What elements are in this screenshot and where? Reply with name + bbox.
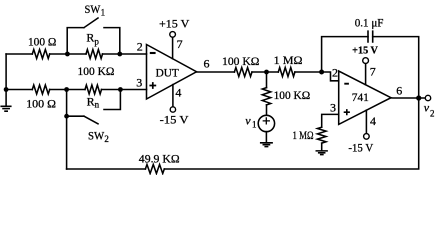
svg-text:100 KΩ: 100 KΩ (222, 54, 259, 68)
op-amp U1 DUT (147, 45, 197, 100)
wire 741 pin7 (365, 64, 367, 85)
ground v1 (261, 132, 272, 147)
resistor 1M mid (278, 68, 295, 77)
wire DUT output (197, 71, 322, 73)
source v1 (258, 115, 274, 131)
resistor 100ohm bottom (32, 85, 49, 94)
svg-text:1 MΩ: 1 MΩ (274, 53, 303, 67)
svg-text:2: 2 (430, 108, 435, 118)
svg-text:n: n (95, 100, 100, 110)
svg-text:-15 V: -15 V (348, 140, 373, 154)
node B (319, 70, 324, 75)
svg-text:+15 V: +15 V (352, 46, 378, 57)
terminal -15V 741 (364, 134, 370, 140)
node top left (65, 52, 70, 57)
svg-text:3: 3 (136, 76, 142, 90)
svg-text:100 Ω: 100 Ω (26, 96, 56, 110)
svg-text:3: 3 (330, 100, 336, 114)
resistor 100ohm top (32, 50, 49, 59)
svg-text:7: 7 (177, 37, 183, 51)
svg-text:100 Ω: 100 Ω (28, 35, 56, 49)
op-amp DUT plus (149, 82, 156, 89)
wire bottom row (6, 89, 146, 91)
svg-text:R: R (86, 31, 94, 45)
svg-text:2: 2 (332, 65, 338, 79)
svg-text:2: 2 (137, 39, 143, 53)
svg-text:6: 6 (204, 57, 210, 71)
resistor Rn (85, 85, 102, 94)
svg-text:v: v (245, 113, 251, 127)
source v1 plus (263, 118, 269, 124)
svg-text:4: 4 (175, 86, 181, 100)
op-amp 741 minus (344, 83, 349, 85)
node output v2 (416, 95, 421, 100)
wire 741 output (391, 97, 425, 99)
op-amp DUT minus (150, 52, 156, 54)
terminal +15V DUT (170, 32, 176, 38)
node bottom left (64, 87, 69, 92)
terminal -15V DUT (170, 107, 175, 112)
node SW2 pivot (64, 114, 69, 119)
svg-text:741: 741 (352, 90, 369, 104)
terminal v2 (425, 95, 430, 100)
op-amp U2 741 (339, 71, 391, 124)
svg-text:7: 7 (370, 64, 376, 78)
svg-text:100 KΩ: 100 KΩ (78, 64, 115, 78)
svg-text:DUT: DUT (156, 65, 180, 79)
svg-text:2: 2 (104, 134, 109, 144)
svg-text:+15 V: +15 V (159, 17, 190, 31)
node A (264, 70, 269, 75)
svg-text:p: p (94, 37, 99, 47)
wire DUT pin7 (172, 37, 174, 58)
wire capacitor feedback top (322, 37, 419, 98)
op-amp 741 plus (344, 109, 350, 115)
svg-text:1: 1 (101, 7, 106, 17)
resistor Rp (86, 50, 103, 59)
wire 741 pin4 (365, 110, 367, 133)
svg-text:R: R (87, 94, 95, 108)
ground 1M 741 (316, 143, 327, 155)
resistor 1M vertical (317, 127, 326, 143)
wire top row (6, 53, 146, 55)
resistor 100k mid (234, 68, 252, 77)
resistor 49.9k (145, 165, 164, 174)
svg-text:1: 1 (252, 119, 257, 129)
wire bottom feedback row (67, 98, 419, 169)
wire node A down (266, 72, 268, 115)
node bottom right (118, 87, 123, 92)
svg-text:49.9 KΩ: 49.9 KΩ (139, 151, 180, 165)
node ground left (4, 87, 9, 92)
svg-text:100 KΩ: 100 KΩ (274, 88, 311, 102)
wire SW2 rail down (66, 90, 68, 170)
wire 741 pin3 (322, 114, 339, 127)
svg-text:4: 4 (370, 114, 376, 128)
resistor 100k vertical (262, 88, 270, 105)
svg-text:6: 6 (396, 83, 402, 97)
switch SW1 (67, 18, 120, 54)
node top right (117, 52, 122, 57)
svg-text:SW: SW (85, 2, 101, 16)
wire DUT pin4 (172, 85, 174, 107)
svg-text:v: v (424, 101, 430, 115)
ground left (1, 90, 11, 112)
switch SW2 (67, 90, 121, 124)
svg-text:0.1 μF: 0.1 μF (355, 16, 384, 30)
svg-text:-15 V: -15 V (160, 112, 189, 126)
svg-text:SW: SW (88, 128, 105, 142)
svg-text:1 MΩ: 1 MΩ (293, 128, 314, 142)
capacitor C 0.1uF plates (368, 31, 373, 42)
wire 741 pin2 jog (322, 72, 339, 81)
terminal +15V 741 (363, 58, 369, 64)
wire left rail (5, 54, 7, 90)
